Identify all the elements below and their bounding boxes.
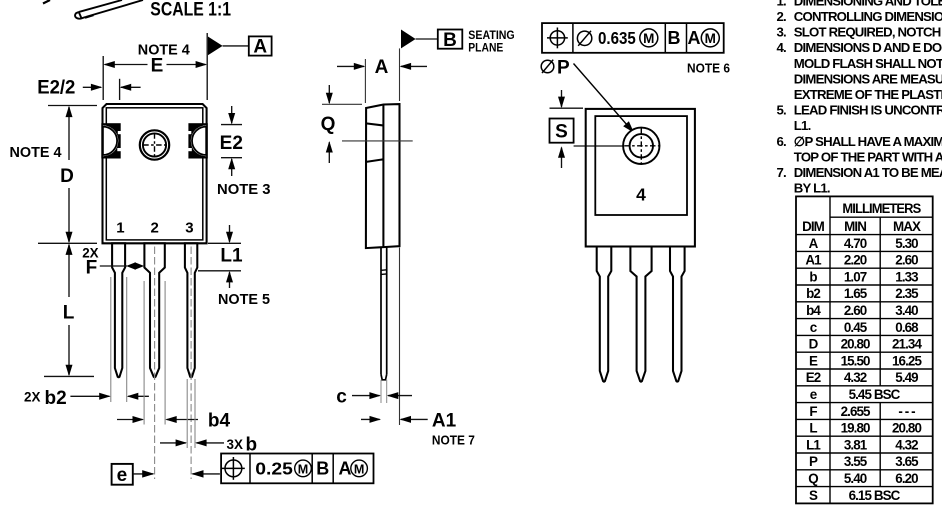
svg-text:6.: 6. bbox=[777, 134, 787, 149]
front lead 3 bbox=[185, 243, 197, 377]
back lead 1 bbox=[597, 247, 612, 382]
svg-text:1.65: 1.65 bbox=[844, 286, 868, 301]
dimension L bbox=[68, 245, 70, 297]
dimension b4 bbox=[117, 419, 143, 421]
svg-text:A: A bbox=[375, 57, 389, 78]
svg-text:6.15 BSC: 6.15 BSC bbox=[849, 488, 901, 503]
svg-text:e: e bbox=[117, 465, 128, 486]
b extension lines bbox=[186, 379, 188, 448]
svg-text:P: P bbox=[557, 58, 570, 79]
svg-text:0.635: 0.635 bbox=[598, 28, 636, 48]
dimension E2 extension lines bbox=[221, 124, 242, 126]
svg-text:2.655: 2.655 bbox=[841, 404, 871, 419]
svg-text:F: F bbox=[86, 258, 98, 279]
svg-text:b: b bbox=[246, 434, 258, 455]
svg-text:DIMENSIONS D AND E DO NOT INCL: DIMENSIONS D AND E DO NOT INCLUDE MOLD F… bbox=[794, 40, 942, 55]
svg-text:MIN: MIN bbox=[844, 219, 866, 234]
svg-text:- - -: - - - bbox=[898, 404, 915, 419]
svg-text:D: D bbox=[60, 166, 74, 187]
svg-text:NOTE 4: NOTE 4 bbox=[138, 42, 190, 58]
svg-text:F: F bbox=[809, 404, 817, 419]
Q top extension line bbox=[322, 103, 362, 105]
front view: package body outline bbox=[103, 104, 207, 243]
svg-text:NOTE 5: NOTE 5 bbox=[218, 292, 270, 308]
svg-text:DIMENSION A1 TO BE MEASURED IN: DIMENSION A1 TO BE MEASURED IN THE ZONE bbox=[794, 165, 942, 180]
svg-text:1.33: 1.33 bbox=[895, 269, 918, 284]
front view: body inner outline bbox=[106, 108, 203, 240]
feature control frame (top): position dia 0.635 M B A M bbox=[542, 23, 724, 53]
svg-text:TOP OF THE PART WITH A MAXIMUM: TOP OF THE PART WITH A MAXIMUM HOLE DIAM… bbox=[794, 149, 942, 164]
svg-text:5.40: 5.40 bbox=[844, 471, 867, 486]
svg-text:E: E bbox=[151, 55, 164, 76]
svg-text:5.: 5. bbox=[777, 103, 787, 118]
svg-text:b2: b2 bbox=[45, 388, 67, 409]
svg-text:MILLIMETERS: MILLIMETERS bbox=[842, 201, 921, 216]
svg-text:M: M bbox=[354, 462, 365, 476]
svg-text:3.: 3. bbox=[777, 25, 787, 40]
svg-text:SLOT REQUIRED, NOTCH MAY BE RO: SLOT REQUIRED, NOTCH MAY BE ROUNDED. bbox=[794, 25, 942, 40]
svg-text:MOLD FLASH SHALL NOT EXCEED 0.: MOLD FLASH SHALL NOT EXCEED 0.25 PER SID… bbox=[794, 56, 942, 71]
datum B flag bbox=[401, 30, 416, 49]
svg-text:L: L bbox=[63, 303, 75, 324]
svg-text:20.80: 20.80 bbox=[841, 337, 870, 352]
svg-text:2.: 2. bbox=[777, 9, 787, 24]
svg-text:SEATING: SEATING bbox=[468, 30, 514, 42]
dimension E bbox=[105, 64, 148, 66]
svg-text:E2/2: E2/2 bbox=[37, 77, 75, 98]
svg-text:DIM: DIM bbox=[802, 219, 825, 234]
svg-text:LEAD FINISH IS UNCONTROLLED IN: LEAD FINISH IS UNCONTROLLED IN DIMENSION bbox=[794, 103, 942, 118]
front lead 2 (wide) bbox=[144, 243, 164, 377]
second lead tip fragment bbox=[43, 0, 50, 4]
svg-text:E2: E2 bbox=[220, 133, 243, 154]
svg-text:3.65: 3.65 bbox=[895, 454, 919, 469]
dimension D bbox=[68, 107, 70, 160]
svg-text:∅P SHALL HAVE A MAXIMUM DRAFT: ∅P SHALL HAVE A MAXIMUM DRAFT ANGLE OF 1… bbox=[794, 134, 942, 149]
svg-text:2.20: 2.20 bbox=[844, 253, 867, 268]
svg-text:M: M bbox=[298, 462, 309, 476]
svg-text:L1.: L1. bbox=[794, 118, 811, 133]
svg-text:3X: 3X bbox=[227, 437, 243, 452]
svg-text:NOTE 3: NOTE 3 bbox=[217, 182, 271, 198]
svg-text:b4: b4 bbox=[806, 303, 821, 318]
dimension L1 bbox=[229, 225, 231, 242]
svg-text:15.50: 15.50 bbox=[841, 353, 870, 368]
svg-text:NOTE 6: NOTE 6 bbox=[687, 61, 730, 76]
svg-text:c: c bbox=[336, 386, 347, 407]
front view: mounting hole bbox=[140, 130, 169, 159]
side view: package body profile bbox=[366, 104, 400, 248]
svg-text:3.40: 3.40 bbox=[895, 303, 918, 318]
dimension A1 bbox=[361, 418, 380, 420]
dimension e (boxed) bbox=[112, 464, 133, 485]
notes list bbox=[777, 0, 942, 196]
svg-text:5.30: 5.30 bbox=[895, 236, 918, 251]
svg-text:4.32: 4.32 bbox=[895, 437, 918, 452]
svg-text:Q: Q bbox=[808, 471, 818, 486]
svg-text:5.45 BSC: 5.45 BSC bbox=[849, 387, 901, 402]
back view: package body outline bbox=[586, 109, 695, 247]
seating plane extension line bbox=[399, 48, 401, 101]
svg-text:A1: A1 bbox=[805, 253, 822, 268]
svg-text:4: 4 bbox=[636, 185, 646, 205]
svg-text:A: A bbox=[253, 37, 267, 58]
dimension E2 bbox=[231, 106, 233, 123]
back lead 3 bbox=[670, 247, 685, 382]
svg-text:2X: 2X bbox=[24, 390, 40, 405]
dimension E extension lines bbox=[102, 56, 104, 100]
svg-text:0.68: 0.68 bbox=[895, 320, 919, 335]
lead shoulder ticks bbox=[381, 269, 387, 272]
svg-text:4.70: 4.70 bbox=[844, 236, 867, 251]
svg-text:3.55: 3.55 bbox=[844, 454, 868, 469]
svg-text:B: B bbox=[316, 459, 329, 479]
svg-text:P: P bbox=[809, 454, 818, 469]
svg-text:L: L bbox=[809, 421, 817, 436]
svg-text:MAX: MAX bbox=[893, 219, 921, 234]
svg-text:4.32: 4.32 bbox=[844, 370, 867, 385]
dimension A bbox=[337, 65, 364, 67]
dimension L extension line (lead tips) bbox=[44, 375, 94, 377]
svg-text:2: 2 bbox=[151, 219, 159, 236]
front lead 1 bbox=[112, 243, 125, 377]
svg-text:2.60: 2.60 bbox=[895, 253, 918, 268]
svg-text:E2: E2 bbox=[806, 370, 821, 385]
dimension S bbox=[550, 107, 584, 109]
svg-text:B: B bbox=[668, 28, 681, 48]
svg-text:PLANE: PLANE bbox=[468, 42, 503, 54]
svg-text:b2: b2 bbox=[806, 286, 820, 301]
svg-text:1.07: 1.07 bbox=[844, 269, 867, 284]
side view: lead bbox=[381, 247, 387, 379]
svg-text:B: B bbox=[443, 30, 457, 51]
dimension table bbox=[796, 196, 933, 503]
feature control frame (bottom): position 0.25 M B A M bbox=[221, 454, 373, 484]
dimension D extension lines bbox=[48, 105, 97, 107]
svg-text:DIMENSIONS ARE MEASURED AT THE: DIMENSIONS ARE MEASURED AT THE OUTERMOST bbox=[794, 71, 942, 86]
svg-text:16.25: 16.25 bbox=[892, 353, 922, 368]
svg-text:M: M bbox=[705, 31, 716, 46]
svg-text:1: 1 bbox=[116, 219, 124, 236]
back lead 2 bbox=[630, 247, 651, 382]
b4 extension lines bbox=[143, 281, 145, 425]
dimension L1 extension lines bbox=[208, 242, 241, 244]
dimension Q bbox=[328, 85, 330, 103]
dimension 3X b bbox=[160, 442, 186, 444]
lead edge extension lines bbox=[380, 380, 382, 403]
svg-text:Q: Q bbox=[321, 114, 336, 135]
label dia P with leader bbox=[541, 60, 554, 73]
svg-text:2.60: 2.60 bbox=[844, 303, 867, 318]
back hole crosshair bbox=[640, 129, 642, 164]
svg-text:EXTREME OF THE PLASTIC BODY.: EXTREME OF THE PLASTIC BODY. bbox=[794, 87, 942, 102]
svg-text:A: A bbox=[809, 236, 819, 251]
svg-text:S: S bbox=[555, 121, 568, 142]
back view: hole boss bbox=[623, 128, 659, 164]
svg-text:SCALE 1:1: SCALE 1:1 bbox=[150, 0, 231, 21]
isometric lead fragment (cropped 3D view) bbox=[75, 0, 143, 19]
lead 2 centerline bbox=[154, 247, 156, 480]
svg-text:S: S bbox=[809, 488, 818, 503]
b2 extension lines bbox=[110, 277, 112, 402]
svg-text:7.: 7. bbox=[777, 165, 787, 180]
svg-text:21.34: 21.34 bbox=[892, 337, 922, 352]
dimension E2/2 extension line bbox=[119, 79, 121, 100]
svg-text:6.20: 6.20 bbox=[895, 471, 918, 486]
svg-text:L1: L1 bbox=[220, 245, 243, 266]
dimension F leader and arrows bbox=[100, 265, 127, 267]
svg-text:19.80: 19.80 bbox=[841, 421, 870, 436]
svg-text:M: M bbox=[643, 31, 654, 46]
svg-text:DIMENSIONING AND TOLERANCING P: DIMENSIONING AND TOLERANCING PER ASME Y1… bbox=[794, 0, 942, 8]
svg-text:2.35: 2.35 bbox=[895, 286, 919, 301]
svg-text:e: e bbox=[810, 387, 817, 402]
svg-text:b4: b4 bbox=[208, 411, 231, 432]
front hole crosshair bbox=[154, 133, 156, 157]
svg-text:3: 3 bbox=[185, 219, 193, 236]
svg-text:b: b bbox=[809, 269, 817, 284]
hole center plane line bbox=[342, 140, 413, 142]
svg-text:CONTROLLING DIMENSION: MILLIME: CONTROLLING DIMENSION: MILLIMETERS. bbox=[794, 9, 942, 24]
hole center line bbox=[574, 145, 624, 147]
svg-text:A1: A1 bbox=[432, 411, 457, 432]
svg-text:20.80: 20.80 bbox=[892, 421, 921, 436]
svg-text:D: D bbox=[809, 337, 819, 352]
svg-text:E: E bbox=[809, 353, 818, 368]
svg-text:BY L1.: BY L1. bbox=[794, 181, 830, 196]
svg-text:L1: L1 bbox=[806, 437, 821, 452]
front view: left mounting notch (hatched) bbox=[101, 123, 121, 158]
svg-text:NOTE 7: NOTE 7 bbox=[432, 433, 475, 448]
svg-text:NOTE 4: NOTE 4 bbox=[10, 145, 62, 161]
svg-text:0.25: 0.25 bbox=[255, 459, 293, 479]
datum A flag bbox=[208, 37, 223, 56]
svg-text:4.: 4. bbox=[777, 40, 787, 55]
back view: metal tab inner outline bbox=[595, 116, 687, 215]
svg-text:1.: 1. bbox=[777, 0, 787, 8]
svg-text:5.49: 5.49 bbox=[895, 370, 918, 385]
front view: right mounting notch (hatched) bbox=[188, 123, 208, 158]
svg-text:A: A bbox=[688, 28, 701, 48]
lead 3 centerline bbox=[190, 247, 192, 480]
svg-text:0.45: 0.45 bbox=[844, 320, 868, 335]
dimension A extension line bbox=[364, 59, 366, 103]
svg-text:3.81: 3.81 bbox=[844, 437, 868, 452]
svg-text:A: A bbox=[339, 459, 352, 479]
